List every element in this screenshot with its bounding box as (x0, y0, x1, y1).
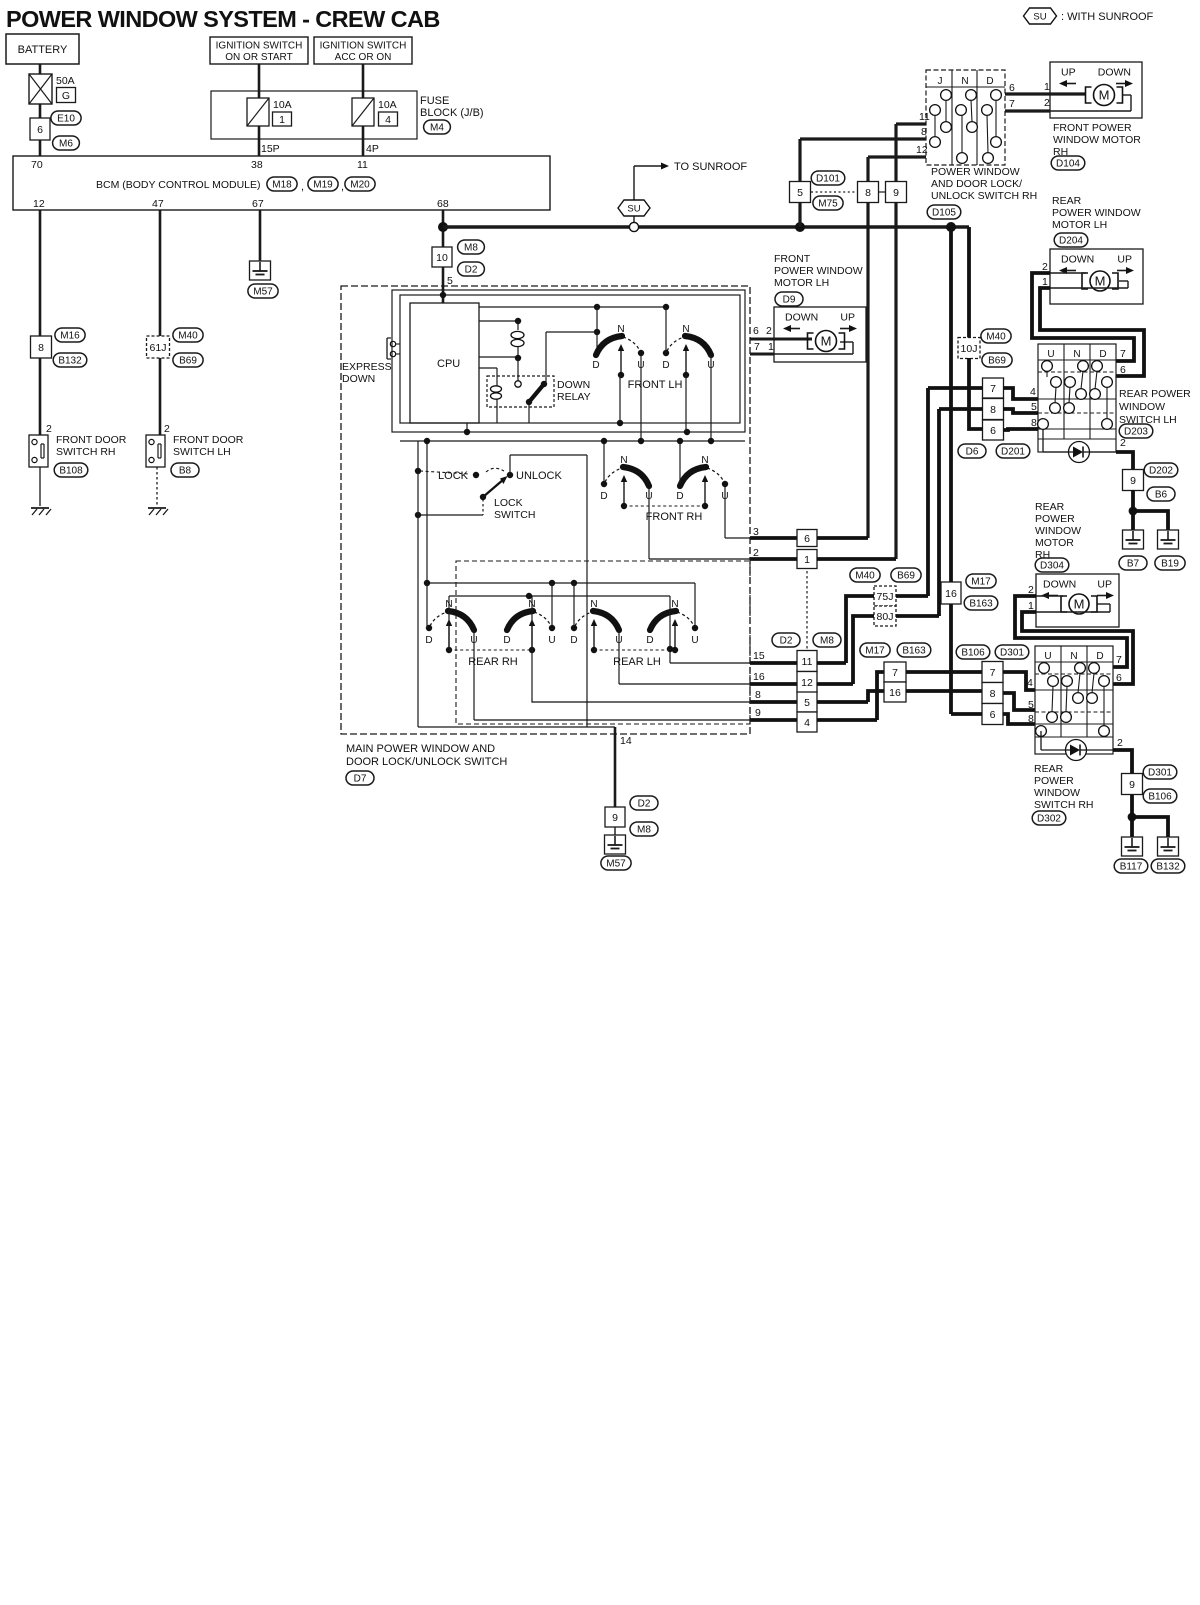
svg-text:D301: D301 (1000, 648, 1024, 659)
svg-text:6: 6 (804, 533, 810, 545)
svg-text:RELAY: RELAY (557, 391, 591, 403)
svg-text:DOWN: DOWN (1061, 254, 1094, 266)
svg-text:LOCK: LOCK (494, 497, 523, 509)
svg-text:AND DOOR LOCK/: AND DOOR LOCK/ (931, 178, 1022, 190)
svg-text:7: 7 (1116, 654, 1122, 666)
svg-text:B117: B117 (1120, 862, 1143, 873)
svg-text:2: 2 (753, 547, 759, 559)
svg-text:M40: M40 (855, 571, 875, 582)
svg-text:15P: 15P (261, 143, 280, 155)
svg-text:D301: D301 (1148, 768, 1172, 779)
svg-text:U: U (691, 635, 698, 646)
svg-text:16: 16 (945, 588, 957, 600)
svg-text:7: 7 (990, 383, 996, 395)
svg-text:68: 68 (437, 198, 449, 210)
svg-text:WINDOW MOTOR: WINDOW MOTOR (1053, 134, 1141, 146)
svg-text:8: 8 (990, 404, 996, 416)
svg-text:3: 3 (753, 526, 759, 538)
svg-text:DOWN: DOWN (1043, 579, 1076, 591)
svg-text:61J: 61J (150, 342, 167, 354)
svg-text:D105: D105 (932, 208, 956, 219)
svg-text:BCM (BODY CONTROL MODULE): BCM (BODY CONTROL MODULE) (96, 179, 261, 191)
svg-text:N: N (590, 599, 597, 610)
svg-text:70: 70 (31, 159, 43, 171)
svg-text:9: 9 (1129, 779, 1135, 791)
svg-text:1: 1 (1044, 81, 1050, 93)
svg-text:8: 8 (755, 689, 761, 701)
svg-text:10J: 10J (961, 343, 978, 355)
svg-text:D: D (646, 635, 653, 646)
svg-text:MOTOR LH: MOTOR LH (774, 277, 829, 289)
svg-text:DOOR LOCK/UNLOCK SWITCH: DOOR LOCK/UNLOCK SWITCH (346, 756, 507, 768)
svg-text:38: 38 (251, 159, 263, 171)
svg-text:POWER WINDOW: POWER WINDOW (931, 166, 1020, 178)
svg-text:B163: B163 (969, 599, 993, 610)
svg-text:N: N (682, 324, 689, 335)
svg-text:BLOCK (J/B): BLOCK (J/B) (420, 107, 484, 119)
svg-text:M17: M17 (865, 646, 885, 657)
svg-text:D9: D9 (783, 295, 796, 306)
svg-text:SWITCH RH: SWITCH RH (1034, 799, 1094, 811)
svg-text:6: 6 (1120, 364, 1126, 376)
svg-text:POWER: POWER (1035, 513, 1075, 525)
svg-text:IGNITION SWITCH: IGNITION SWITCH (320, 41, 407, 52)
svg-text:2: 2 (766, 325, 772, 337)
svg-text:5: 5 (447, 275, 453, 287)
svg-text:N: N (961, 76, 968, 87)
svg-text:FRONT LH: FRONT LH (628, 379, 683, 391)
svg-text:UNLOCK: UNLOCK (516, 470, 563, 482)
svg-text:B7: B7 (1127, 559, 1140, 570)
svg-text:DOWN: DOWN (557, 379, 590, 391)
svg-text:D: D (676, 491, 683, 502)
svg-text:4: 4 (1030, 386, 1036, 398)
svg-text:U: U (1044, 651, 1051, 662)
svg-text:M16: M16 (60, 331, 80, 342)
svg-text:11: 11 (357, 159, 368, 171)
svg-text:B69: B69 (897, 571, 915, 582)
svg-text:7: 7 (1009, 98, 1015, 110)
svg-text:B69: B69 (179, 356, 197, 367)
svg-text:REAR: REAR (1035, 501, 1065, 513)
svg-text:REAR: REAR (1052, 195, 1082, 207)
svg-text:LOCK: LOCK (438, 470, 469, 482)
svg-text:EXPRESS: EXPRESS (342, 361, 392, 373)
svg-text:M40: M40 (986, 332, 1006, 343)
svg-text:B163: B163 (902, 646, 926, 657)
svg-text:8: 8 (1028, 713, 1034, 725)
svg-text:4: 4 (804, 717, 810, 729)
svg-text:B69: B69 (988, 356, 1006, 367)
svg-text:M57: M57 (606, 859, 626, 870)
svg-text:UP: UP (1061, 67, 1076, 79)
svg-text:4: 4 (1027, 677, 1033, 689)
svg-text:ON OR START: ON OR START (225, 52, 292, 63)
svg-text:M: M (1074, 597, 1085, 612)
svg-text:6: 6 (753, 325, 759, 337)
svg-text:80J: 80J (877, 611, 894, 623)
svg-text:DOWN: DOWN (342, 373, 375, 385)
svg-text:D: D (425, 635, 432, 646)
svg-text:SU: SU (1033, 12, 1046, 23)
svg-text:B8: B8 (179, 466, 192, 477)
svg-text:15: 15 (753, 650, 765, 662)
svg-text:16: 16 (889, 687, 901, 699)
svg-text:9: 9 (755, 707, 761, 719)
svg-text:D304: D304 (1040, 561, 1064, 572)
svg-text:J: J (938, 76, 943, 87)
svg-text:12: 12 (33, 198, 45, 210)
svg-text:M19: M19 (313, 180, 333, 191)
svg-text:7: 7 (990, 667, 996, 679)
svg-text:N: N (620, 455, 627, 466)
svg-text:8: 8 (38, 342, 44, 354)
svg-text:N: N (1070, 651, 1077, 662)
svg-text:6: 6 (990, 709, 996, 721)
svg-text:12: 12 (801, 677, 813, 689)
svg-text:9: 9 (1130, 475, 1136, 487)
svg-text:2: 2 (1044, 97, 1050, 109)
svg-text:IGNITION SWITCH: IGNITION SWITCH (216, 41, 303, 52)
svg-text:UNLOCK SWITCH RH: UNLOCK SWITCH RH (931, 190, 1037, 202)
svg-text:9: 9 (612, 812, 618, 824)
svg-text:67: 67 (252, 198, 264, 210)
svg-text:D104: D104 (1056, 159, 1080, 170)
svg-text:10A: 10A (378, 99, 397, 111)
svg-text:M: M (1095, 274, 1106, 289)
svg-text:REAR: REAR (1034, 763, 1064, 775)
svg-text:D2: D2 (465, 265, 478, 276)
svg-text:D201: D201 (1001, 447, 1025, 458)
svg-text:D: D (600, 491, 607, 502)
svg-text:WINDOW: WINDOW (1119, 401, 1165, 413)
svg-text:TO SUNROOF: TO SUNROOF (674, 161, 747, 173)
svg-text:,: , (301, 181, 304, 193)
svg-text:D101: D101 (816, 174, 840, 185)
svg-text:D: D (503, 635, 510, 646)
svg-text:B132: B132 (1156, 862, 1180, 873)
svg-text:6: 6 (37, 124, 43, 136)
svg-text:7: 7 (892, 667, 898, 679)
svg-text:FRONT POWER: FRONT POWER (1053, 122, 1132, 134)
svg-text:1: 1 (768, 341, 774, 353)
svg-text:DOWN: DOWN (1098, 67, 1131, 79)
svg-text:D: D (570, 635, 577, 646)
svg-text:D: D (592, 360, 599, 371)
svg-text:D2: D2 (780, 636, 793, 647)
svg-text:B132: B132 (58, 356, 82, 367)
svg-text:M20: M20 (350, 180, 370, 191)
svg-text:D: D (1096, 651, 1103, 662)
svg-text:E10: E10 (57, 114, 75, 125)
svg-text:WINDOW: WINDOW (1034, 787, 1080, 799)
svg-text:MOTOR LH: MOTOR LH (1052, 219, 1107, 231)
svg-text:SWITCH: SWITCH (494, 509, 535, 521)
svg-text:1: 1 (279, 114, 285, 126)
svg-text:REAR RH: REAR RH (468, 656, 518, 668)
svg-text:B19: B19 (1161, 559, 1179, 570)
svg-text:FRONT DOOR: FRONT DOOR (173, 434, 244, 446)
svg-text:D204: D204 (1059, 236, 1083, 247)
svg-text:16: 16 (753, 671, 765, 683)
svg-text:D7: D7 (354, 774, 367, 785)
svg-text:M: M (821, 334, 832, 349)
svg-text:BATTERY: BATTERY (18, 44, 68, 56)
svg-text:D2: D2 (638, 799, 651, 810)
svg-text:M4: M4 (430, 123, 444, 134)
svg-text:N: N (671, 599, 678, 610)
svg-text:5: 5 (804, 697, 810, 709)
svg-text:10A: 10A (273, 99, 292, 111)
svg-text:FRONT DOOR: FRONT DOOR (56, 434, 127, 446)
svg-text:75J: 75J (877, 591, 894, 603)
svg-text:: WITH SUNROOF: : WITH SUNROOF (1061, 11, 1154, 23)
svg-text:10: 10 (436, 252, 448, 264)
svg-text:SU: SU (627, 204, 640, 215)
svg-text:M8: M8 (464, 243, 478, 254)
svg-text:M8: M8 (820, 636, 834, 647)
svg-text:M: M (1099, 88, 1110, 103)
svg-text:8: 8 (990, 688, 996, 700)
svg-text:2: 2 (1117, 737, 1123, 749)
svg-text:FRONT RH: FRONT RH (646, 511, 703, 523)
svg-text:5: 5 (1028, 699, 1034, 711)
svg-text:M18: M18 (272, 180, 292, 191)
svg-text:M17: M17 (971, 577, 991, 588)
svg-text:D: D (662, 360, 669, 371)
svg-text:D302: D302 (1037, 814, 1061, 825)
svg-text:M75: M75 (818, 199, 838, 210)
svg-text:8: 8 (865, 187, 871, 199)
svg-text:M8: M8 (637, 825, 651, 836)
svg-text:47: 47 (152, 198, 164, 210)
svg-text:MOTOR: MOTOR (1035, 537, 1074, 549)
svg-text:D: D (986, 76, 993, 87)
svg-text:N: N (701, 455, 708, 466)
svg-text:5: 5 (797, 187, 803, 199)
svg-text:N: N (1073, 349, 1080, 360)
svg-text:,: , (341, 181, 344, 193)
svg-text:UP: UP (1097, 579, 1112, 591)
svg-text:REAR POWER: REAR POWER (1119, 388, 1191, 400)
svg-text:DOWN: DOWN (785, 312, 818, 324)
svg-text:B106: B106 (1148, 792, 1172, 803)
svg-text:7: 7 (754, 341, 760, 353)
svg-text:4P: 4P (366, 143, 379, 155)
svg-text:6: 6 (990, 425, 996, 437)
svg-text:SWITCH LH: SWITCH LH (173, 446, 231, 458)
svg-text:G: G (62, 90, 70, 102)
svg-text:MAIN POWER WINDOW AND: MAIN POWER WINDOW AND (346, 743, 495, 755)
svg-text:M40: M40 (178, 331, 198, 342)
svg-text:14: 14 (620, 735, 632, 747)
svg-text:SWITCH RH: SWITCH RH (56, 446, 116, 458)
svg-text:FUSE: FUSE (420, 95, 449, 107)
svg-text:WINDOW: WINDOW (1035, 525, 1081, 537)
svg-text:6: 6 (1116, 672, 1122, 684)
svg-text:N: N (617, 324, 624, 335)
svg-text:D6: D6 (966, 447, 979, 458)
svg-text:7: 7 (1120, 348, 1126, 360)
svg-text:UP: UP (1117, 254, 1132, 266)
svg-text:REAR LH: REAR LH (613, 656, 661, 668)
svg-text:POWER WINDOW: POWER WINDOW (1052, 207, 1141, 219)
svg-text:FRONT: FRONT (774, 253, 811, 265)
svg-text:M6: M6 (59, 139, 73, 150)
svg-text:9: 9 (893, 187, 899, 199)
svg-text:B6: B6 (1155, 490, 1168, 501)
svg-text:CPU: CPU (437, 358, 460, 370)
svg-text:U: U (548, 635, 555, 646)
svg-text:POWER WINDOW SYSTEM - CREW CAB: POWER WINDOW SYSTEM - CREW CAB (6, 6, 440, 32)
svg-text:11: 11 (919, 111, 930, 123)
svg-text:2: 2 (46, 423, 52, 435)
svg-text:2: 2 (1120, 437, 1126, 449)
svg-text:1: 1 (804, 554, 810, 566)
svg-text:POWER WINDOW: POWER WINDOW (774, 265, 863, 277)
svg-text:B106: B106 (961, 648, 985, 659)
svg-text:D: D (1099, 349, 1106, 360)
svg-text:6: 6 (1009, 82, 1015, 94)
svg-text:50A: 50A (56, 75, 75, 87)
svg-text:U: U (1047, 349, 1054, 360)
svg-text:B108: B108 (59, 466, 83, 477)
svg-text:M57: M57 (253, 287, 273, 298)
svg-text:D203: D203 (1124, 427, 1148, 438)
svg-text:D202: D202 (1149, 466, 1173, 477)
svg-text:ACC OR ON: ACC OR ON (335, 52, 392, 63)
svg-text:2: 2 (164, 423, 170, 435)
svg-text:4: 4 (385, 114, 391, 126)
svg-text:POWER: POWER (1034, 775, 1074, 787)
svg-text:11: 11 (802, 656, 813, 668)
svg-text:UP: UP (840, 312, 855, 324)
